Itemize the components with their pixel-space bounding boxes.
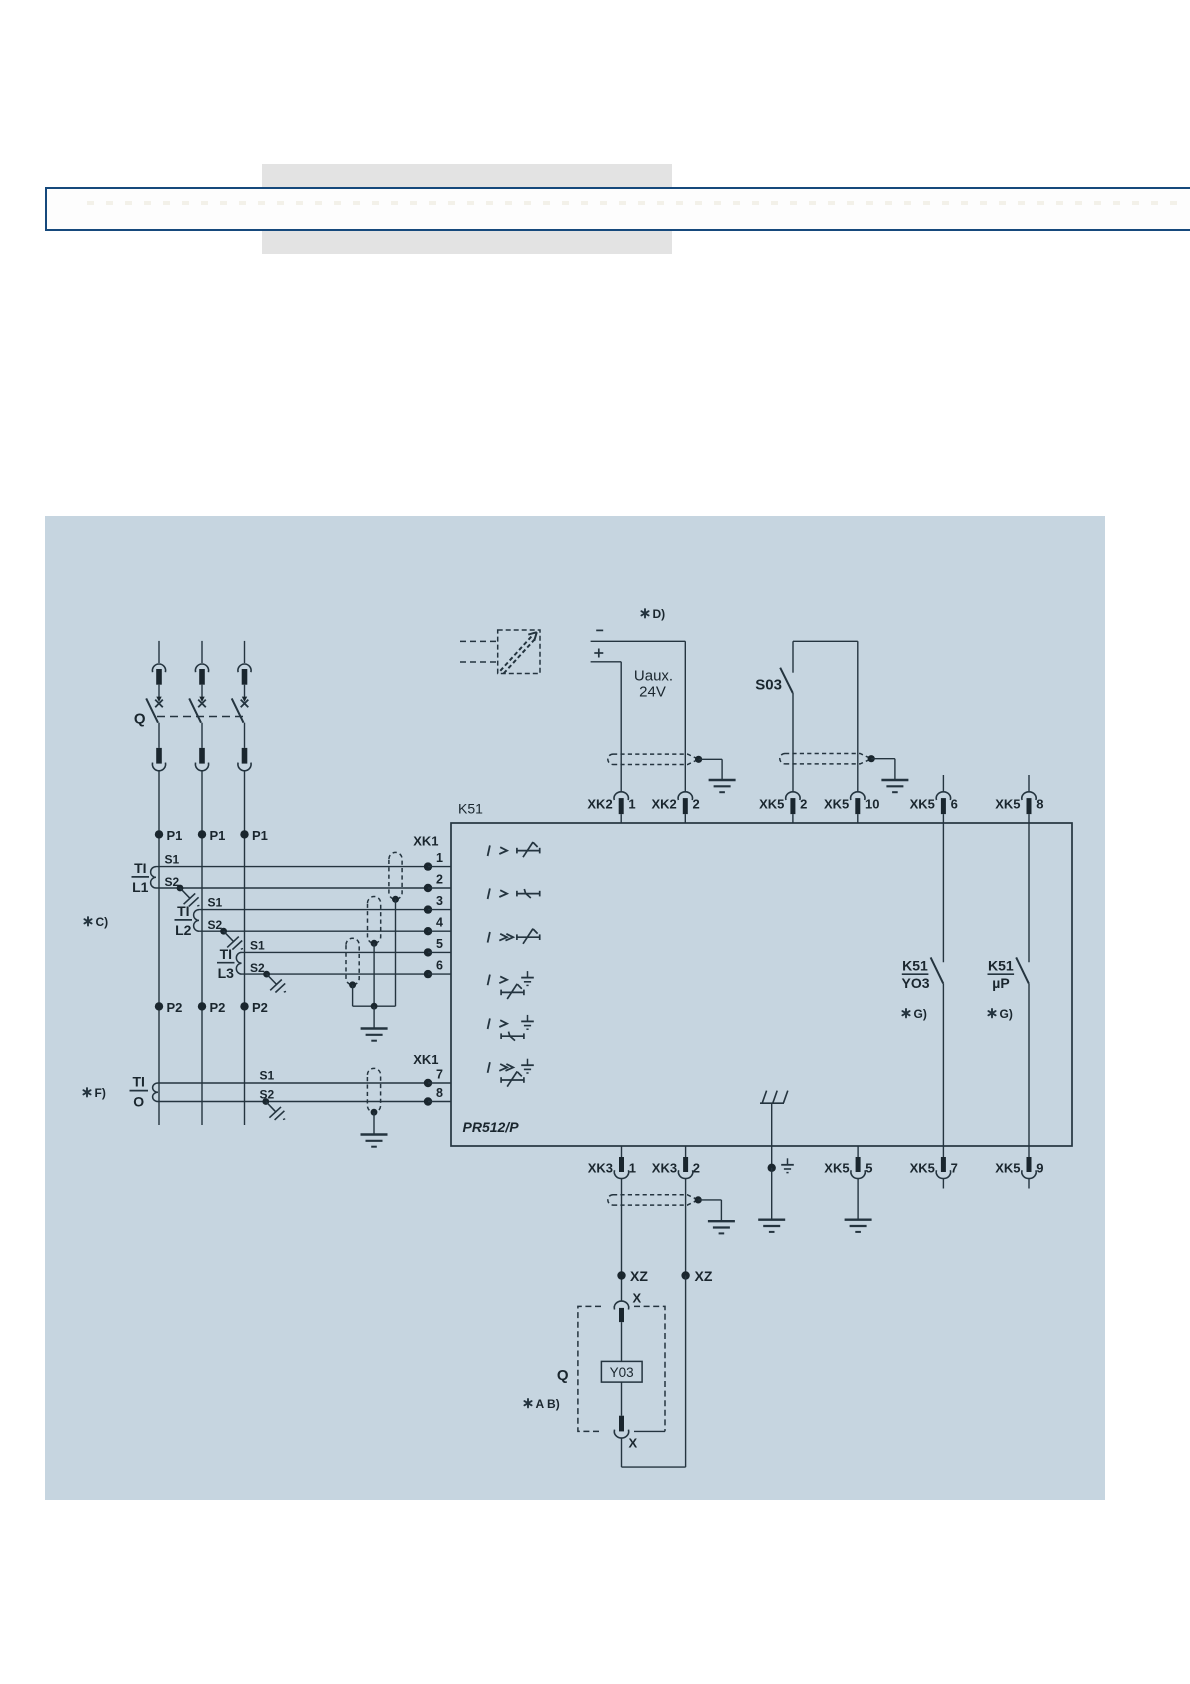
svg-text:5: 5 <box>436 937 443 951</box>
svg-text:9: 9 <box>1036 1161 1043 1176</box>
wire stub above XK5-6 <box>942 775 944 791</box>
svg-text:P1: P1 <box>210 828 226 843</box>
svg-text:XK5: XK5 <box>995 797 1020 812</box>
svg-text:XK3: XK3 <box>588 1161 613 1176</box>
wire S1 of TI/O to XK1 pin 7 <box>158 1082 428 1084</box>
protection function I> earth fault 2 <box>488 1018 490 1029</box>
svg-text:Q: Q <box>557 1367 569 1384</box>
CT transformer TI/L2 secondary winding <box>194 910 199 932</box>
terminal XK3 pin 2 (bottom edge) <box>685 1146 687 1157</box>
svg-text:XK5: XK5 <box>995 1161 1020 1176</box>
svg-text:2: 2 <box>800 797 807 812</box>
ground chassis stud <box>758 1218 785 1220</box>
svg-text:L2: L2 <box>175 922 192 938</box>
shield TI/O pair <box>367 1068 380 1112</box>
junction S2 earthing tap TI/L2 <box>220 928 227 935</box>
terminal XK1 pin 6 <box>424 970 432 978</box>
node P1 terminals <box>155 830 163 838</box>
terminal XK1 pin 5 <box>424 948 432 956</box>
terminal X lower (breaker plug) <box>619 1416 624 1432</box>
wire XK3-1 down to XZ <box>621 1179 623 1301</box>
terminal XK5 pin 10 (top edge) <box>851 792 865 800</box>
node XZ 1 <box>617 1271 625 1279</box>
terminal X upper (breaker plug) <box>614 1301 628 1309</box>
svg-text:µP: µP <box>992 975 1009 991</box>
svg-text:F): F) <box>95 1086 106 1100</box>
CT transformer TI/O secondary winding <box>153 1083 158 1102</box>
shield drain wires to common ground <box>395 899 397 1006</box>
junction S2 earthing tap TI/L1 <box>177 885 184 892</box>
wire S2 of TI/L3 to XK1 <box>242 973 429 975</box>
ground S03 shield <box>881 779 908 781</box>
wire S1 of TI/L1 to XK1 <box>156 866 428 868</box>
breaker Q pole L1 lower stab contact <box>158 723 160 748</box>
terminal XK5 pin 5 (bottom edge) <box>857 1146 859 1157</box>
protection function I> earth fault <box>488 975 490 986</box>
shield pair L2 wires <box>368 897 381 944</box>
svg-text:Uaux.: Uaux. <box>634 668 673 685</box>
breaker Q pole L2 moving contact <box>201 685 203 698</box>
wire stub below XK5-7 <box>942 1179 944 1189</box>
wire XK5-5 to ground <box>857 1179 859 1220</box>
withdrawable supply dashed box <box>498 630 540 674</box>
svg-text:3: 3 <box>436 894 443 908</box>
protection function I>> earth fault <box>488 1062 490 1073</box>
terminal XK5 pin 9 (bottom edge) <box>1028 1146 1030 1157</box>
wire S03 return to XK5-10 <box>857 641 859 791</box>
terminal XK5 pin 7 (bottom edge) <box>942 1146 944 1157</box>
svg-text:L3: L3 <box>218 965 235 981</box>
svg-text:2: 2 <box>693 1161 700 1176</box>
svg-text:K51: K51 <box>458 801 483 817</box>
svg-text:P1: P1 <box>167 828 183 843</box>
coil Y03 box <box>601 1361 642 1382</box>
terminal XK1 pin 4 <box>424 927 432 935</box>
svg-text:XK5: XK5 <box>910 1161 935 1176</box>
svg-text:O: O <box>133 1094 144 1110</box>
wire Y03 to X lower <box>621 1382 623 1416</box>
contact K51/uP <box>1028 823 1030 962</box>
svg-text:2: 2 <box>693 797 700 812</box>
terminal XK1 pin 8 <box>424 1097 432 1105</box>
breaker Q pole L2 upper stab contact <box>201 641 203 663</box>
breaker Q pole L1 moving contact <box>158 685 160 698</box>
svg-text:7: 7 <box>951 1161 958 1176</box>
wire stub below XK5-9 <box>1028 1179 1030 1189</box>
svg-text:1: 1 <box>629 1161 636 1176</box>
svg-text:S2: S2 <box>208 918 223 932</box>
svg-text:S1: S1 <box>260 1069 275 1083</box>
svg-text:1: 1 <box>436 851 443 865</box>
protection function I> second <box>488 888 490 899</box>
note * G) right <box>988 1009 995 1017</box>
wire S1 of TI/L2 to XK1 <box>199 909 428 911</box>
terminal XK2 pin 2 (top edge) <box>678 792 692 800</box>
wire Uaux plus to XK2-1 <box>591 661 622 663</box>
svg-text:G): G) <box>1000 1007 1013 1021</box>
svg-text:XK5: XK5 <box>759 797 784 812</box>
wire XK3-2 down to XZ <box>685 1179 687 1276</box>
terminal XK5 pin 8 (top edge) <box>1022 792 1036 800</box>
breaker Q pole L3 lower stab contact <box>244 723 246 748</box>
wire stub above XK5-8 <box>1028 775 1030 791</box>
terminal XK1 pin 3 <box>424 905 432 913</box>
svg-text:8: 8 <box>436 1086 443 1100</box>
breaker Q pole L2 lower stab contact <box>201 723 203 748</box>
svg-text:4: 4 <box>436 916 443 930</box>
contact K51/YO3 <box>942 823 944 962</box>
breaker Q dashed boundary <box>578 1306 601 1431</box>
terminal XK1 pin 1 <box>424 862 432 870</box>
svg-text:S03: S03 <box>755 677 782 694</box>
svg-text:TI: TI <box>134 860 146 876</box>
chassis stud node <box>768 1164 776 1172</box>
diagram background <box>45 516 1105 1500</box>
terminal XK2 pin 1 (top edge) <box>614 792 628 800</box>
breaker Q linkage dashed <box>157 716 244 718</box>
ground TI/O shield <box>361 1133 388 1135</box>
svg-text:X: X <box>633 1291 642 1306</box>
terminal XK3 pin 1 (bottom edge) <box>621 1146 623 1157</box>
label plus <box>594 652 603 654</box>
shield drain node L2 pair <box>371 940 378 947</box>
ground XK2 shield <box>709 779 736 781</box>
svg-text:L1: L1 <box>132 879 149 895</box>
svg-text:P1: P1 <box>252 828 268 843</box>
svg-text:6: 6 <box>436 959 443 973</box>
svg-text:5: 5 <box>865 1161 872 1176</box>
withdrawal arrow symbol <box>500 635 532 671</box>
svg-text:G): G) <box>914 1007 927 1021</box>
svg-text:XK5: XK5 <box>910 797 935 812</box>
note * A B) <box>524 1399 531 1407</box>
terminal XK1 pin 2 <box>424 884 432 892</box>
svg-text:X: X <box>629 1436 638 1451</box>
svg-text:XZ: XZ <box>630 1268 648 1284</box>
svg-text:8: 8 <box>1036 797 1043 812</box>
svg-text:XK2: XK2 <box>652 797 677 812</box>
breaker Q pole L3 upper stab contact <box>244 641 246 663</box>
ground XK5-5 <box>845 1218 872 1220</box>
protection function I> first threshold <box>488 845 490 856</box>
shield pair L1 wires <box>389 852 402 899</box>
plug linkage symbol <box>760 1102 784 1104</box>
note * D) <box>641 609 648 617</box>
svg-text:YO3: YO3 <box>901 975 929 991</box>
svg-text:1: 1 <box>628 797 635 812</box>
shield drain node L3 pair <box>349 981 356 988</box>
wire X to Y03 coil <box>621 1322 623 1361</box>
title strip with navy border <box>45 187 1190 231</box>
svg-text:S1: S1 <box>208 896 223 910</box>
shield XK3 pair <box>608 1195 613 1205</box>
svg-text:P2: P2 <box>167 1000 183 1015</box>
note * G) left <box>902 1009 909 1017</box>
protection function I>> third <box>488 932 490 943</box>
CT transformer TI/L3 secondary winding <box>236 952 241 974</box>
wire dashed stubs to supply <box>460 640 498 642</box>
svg-text:K51: K51 <box>902 958 928 974</box>
shield S03 pair <box>780 754 785 764</box>
svg-text:Q: Q <box>134 711 146 728</box>
wire phase L1 main run <box>158 770 160 1125</box>
junction S2 earthing tap TI/L3 <box>263 971 270 978</box>
svg-text:7: 7 <box>436 1067 443 1081</box>
grey header block <box>262 164 672 254</box>
svg-text:TI: TI <box>220 946 232 962</box>
svg-text:XK1: XK1 <box>413 834 438 849</box>
note * F) <box>83 1088 90 1096</box>
svg-text:A B): A B) <box>536 1397 560 1411</box>
svg-text:S2: S2 <box>250 961 265 975</box>
svg-text:XK3: XK3 <box>652 1161 677 1176</box>
shield drain node L1 pair <box>392 896 399 903</box>
svg-text:PR512/P: PR512/P <box>463 1119 520 1135</box>
wire Uaux minus to XK2-2 <box>591 640 686 642</box>
CT transformer TI/L1 secondary winding <box>151 867 156 888</box>
svg-text:XK5: XK5 <box>824 797 849 812</box>
shield XK2 supply pair <box>608 754 613 764</box>
wire S2 of TI/L1 to XK1 <box>156 887 428 889</box>
svg-text:S1: S1 <box>165 853 180 867</box>
junction S2 earthing tap TI/O <box>262 1098 269 1105</box>
svg-text:P2: P2 <box>210 1000 226 1015</box>
relay K51 enclosure box <box>451 823 1072 1146</box>
wire phase L2 main run <box>201 770 203 1125</box>
svg-text:S1: S1 <box>250 938 265 952</box>
svg-text:K51: K51 <box>988 958 1014 974</box>
wire phase L3 main run <box>244 770 246 1125</box>
svg-text:C): C) <box>96 915 109 929</box>
label minus <box>596 629 603 631</box>
svg-text:10: 10 <box>865 797 879 812</box>
terminal XK5 pin 6 (top edge) <box>936 792 950 800</box>
svg-text:2: 2 <box>436 872 443 886</box>
svg-text:XK1: XK1 <box>413 1052 438 1067</box>
svg-text:P2: P2 <box>252 1000 268 1015</box>
wire X lower return loop <box>621 1438 623 1467</box>
svg-text:TI: TI <box>177 903 189 919</box>
node XZ 2 <box>681 1271 689 1279</box>
wire S2 of TI/L2 to XK1 <box>199 930 428 932</box>
switch S03 <box>793 640 858 642</box>
svg-text:XZ: XZ <box>695 1268 713 1284</box>
breaker Q pole L3 moving contact <box>244 685 246 698</box>
svg-text:TI: TI <box>132 1074 144 1090</box>
svg-text:6: 6 <box>951 797 958 812</box>
terminal XK1 pin 7 <box>424 1079 432 1087</box>
circuit diagram panel <box>45 516 1105 1500</box>
svg-text:24V: 24V <box>639 684 666 701</box>
shield pair L3 wires <box>346 938 359 985</box>
svg-text:D): D) <box>653 607 666 621</box>
ground XK3 shield <box>708 1220 735 1222</box>
terminal XK5 pin 2 (top edge) <box>786 792 800 800</box>
svg-text:Y03: Y03 <box>610 1365 634 1380</box>
note * C) <box>84 917 91 925</box>
wire S1 of TI/L3 to XK1 <box>242 951 429 953</box>
breaker Q pole L1 upper stab contact <box>158 641 160 663</box>
svg-text:XK5: XK5 <box>824 1161 849 1176</box>
ground CT shields <box>361 1027 388 1029</box>
svg-text:XK2: XK2 <box>587 797 612 812</box>
wire S2 of TI/O to XK1 pin 8 <box>158 1101 428 1103</box>
node P2 terminals <box>155 1002 163 1010</box>
